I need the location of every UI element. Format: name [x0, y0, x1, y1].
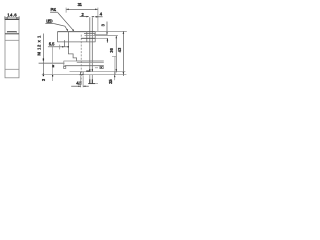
dimension 3 right vertical	[106, 22, 108, 35]
3 right lower tail	[106, 38, 108, 42]
slot lower left line	[89, 75, 91, 84]
body right top tick	[112, 55, 116, 57]
head grid vertical extra	[86, 32, 88, 42]
slot bottom arrow left	[89, 69, 91, 72]
head top edge extension to 43 dim	[95, 30, 126, 32]
slot bottom arrow right	[92, 69, 94, 72]
svg-text:5.5: 5.5	[49, 42, 55, 47]
mounting slot left line	[89, 17, 91, 71]
Pot. leader line	[58, 13, 74, 31]
dimension 4 line	[95, 16, 103, 18]
svg-text:M 12 x 1: M 12 x 1	[36, 35, 41, 56]
base bottom right connector edge	[114, 72, 116, 75]
3 right arrow upper	[106, 32, 108, 34]
front view lens slit	[7, 31, 16, 34]
head internal divider	[67, 32, 69, 42]
connector small rect	[100, 67, 103, 69]
4.3 dim line right	[83, 85, 89, 87]
Pot. underline	[50, 11, 58, 13]
side view head bottom edge	[57, 41, 95, 43]
body step line right	[77, 61, 104, 63]
dimension 36 line	[115, 36, 117, 73]
head grid line 1	[84, 33, 95, 35]
slot lower right line	[91, 75, 93, 84]
body mid line	[64, 60, 77, 62]
4.3 extension right	[82, 76, 84, 88]
5.5 crossing blob	[67, 46, 69, 48]
slot lower right dark end	[91, 79, 93, 83]
front view lens bottom line	[5, 33, 19, 35]
slot lower left dark end	[89, 79, 91, 83]
barrel axis line	[39, 62, 65, 64]
mounting slot right line	[91, 17, 93, 71]
body left small rect	[64, 66, 66, 68]
side view head left edge	[56, 32, 58, 42]
head grid dark line	[81, 37, 95, 39]
svg-text:2.5: 2.5	[108, 79, 113, 84]
axis dark mark	[52, 65, 54, 68]
barrel front top corner mark	[42, 58, 44, 60]
connector spigot left	[79, 72, 81, 75]
head grid line 2 / 3-dim bottom ref	[94, 34, 107, 36]
front view outline	[5, 19, 19, 77]
head right end vertical	[94, 32, 96, 42]
barrel step outline	[68, 42, 103, 61]
connector spigot right	[82, 72, 84, 75]
center line dashed	[80, 35, 82, 85]
3 right arrow lower	[107, 38, 109, 40]
4.3 dim line left	[71, 85, 81, 87]
body bottom line	[70, 71, 126, 73]
dimension 2 line left	[80, 16, 89, 18]
head grid line 3 / 36-dim top ref	[85, 35, 118, 37]
slot bottom line tail	[95, 83, 98, 85]
front view body line	[5, 39, 19, 41]
dimension 31 left extension	[65, 8, 67, 13]
5.5 left reference tick	[59, 45, 61, 50]
LED leader line	[54, 24, 68, 31]
connector small line	[95, 67, 98, 69]
side view head top edge	[57, 31, 95, 33]
slot bottom line	[88, 83, 95, 85]
svg-text:LED: LED	[46, 18, 52, 23]
base bottom line	[42, 74, 127, 76]
4.3 extension left	[80, 76, 82, 88]
right 3 arrow up	[114, 75, 116, 77]
svg-text:31: 31	[78, 2, 83, 7]
svg-text:36: 36	[109, 47, 114, 52]
base bottom dark segment under spigot	[80, 74, 84, 76]
body step corner	[63, 61, 65, 67]
5.5 right reference line	[64, 40, 66, 47]
svg-text:14.6: 14.6	[7, 13, 17, 18]
dimension 31 right extension	[97, 8, 99, 32]
dimension 31 line	[66, 8, 98, 10]
dimension 43 line	[122, 31, 124, 76]
dimension 2 line right	[92, 16, 94, 18]
front view top edge dark	[5, 19, 20, 21]
right 3 dim tail below base	[114, 75, 116, 81]
LED underline	[45, 22, 54, 24]
grid dark line extension	[95, 37, 107, 39]
body bottom dark segment	[86, 70, 90, 72]
body right edge	[114, 56, 116, 71]
svg-text:43: 43	[117, 47, 122, 52]
svg-text:4.3: 4.3	[76, 80, 82, 85]
front view lower line	[5, 68, 19, 70]
barrel front face line	[42, 34, 44, 77]
barrel rear lower dark mark	[52, 75, 54, 77]
dimension 14.6 line with arrows	[5, 16, 19, 20]
dimension 5.5 line	[48, 46, 69, 48]
barrel rear vertical	[52, 45, 54, 81]
barrel bottom corner mark	[42, 74, 44, 77]
connector small rect dot	[101, 67, 102, 68]
body lower mid line	[65, 65, 104, 67]
svg-text:Pot.: Pot.	[51, 7, 57, 12]
